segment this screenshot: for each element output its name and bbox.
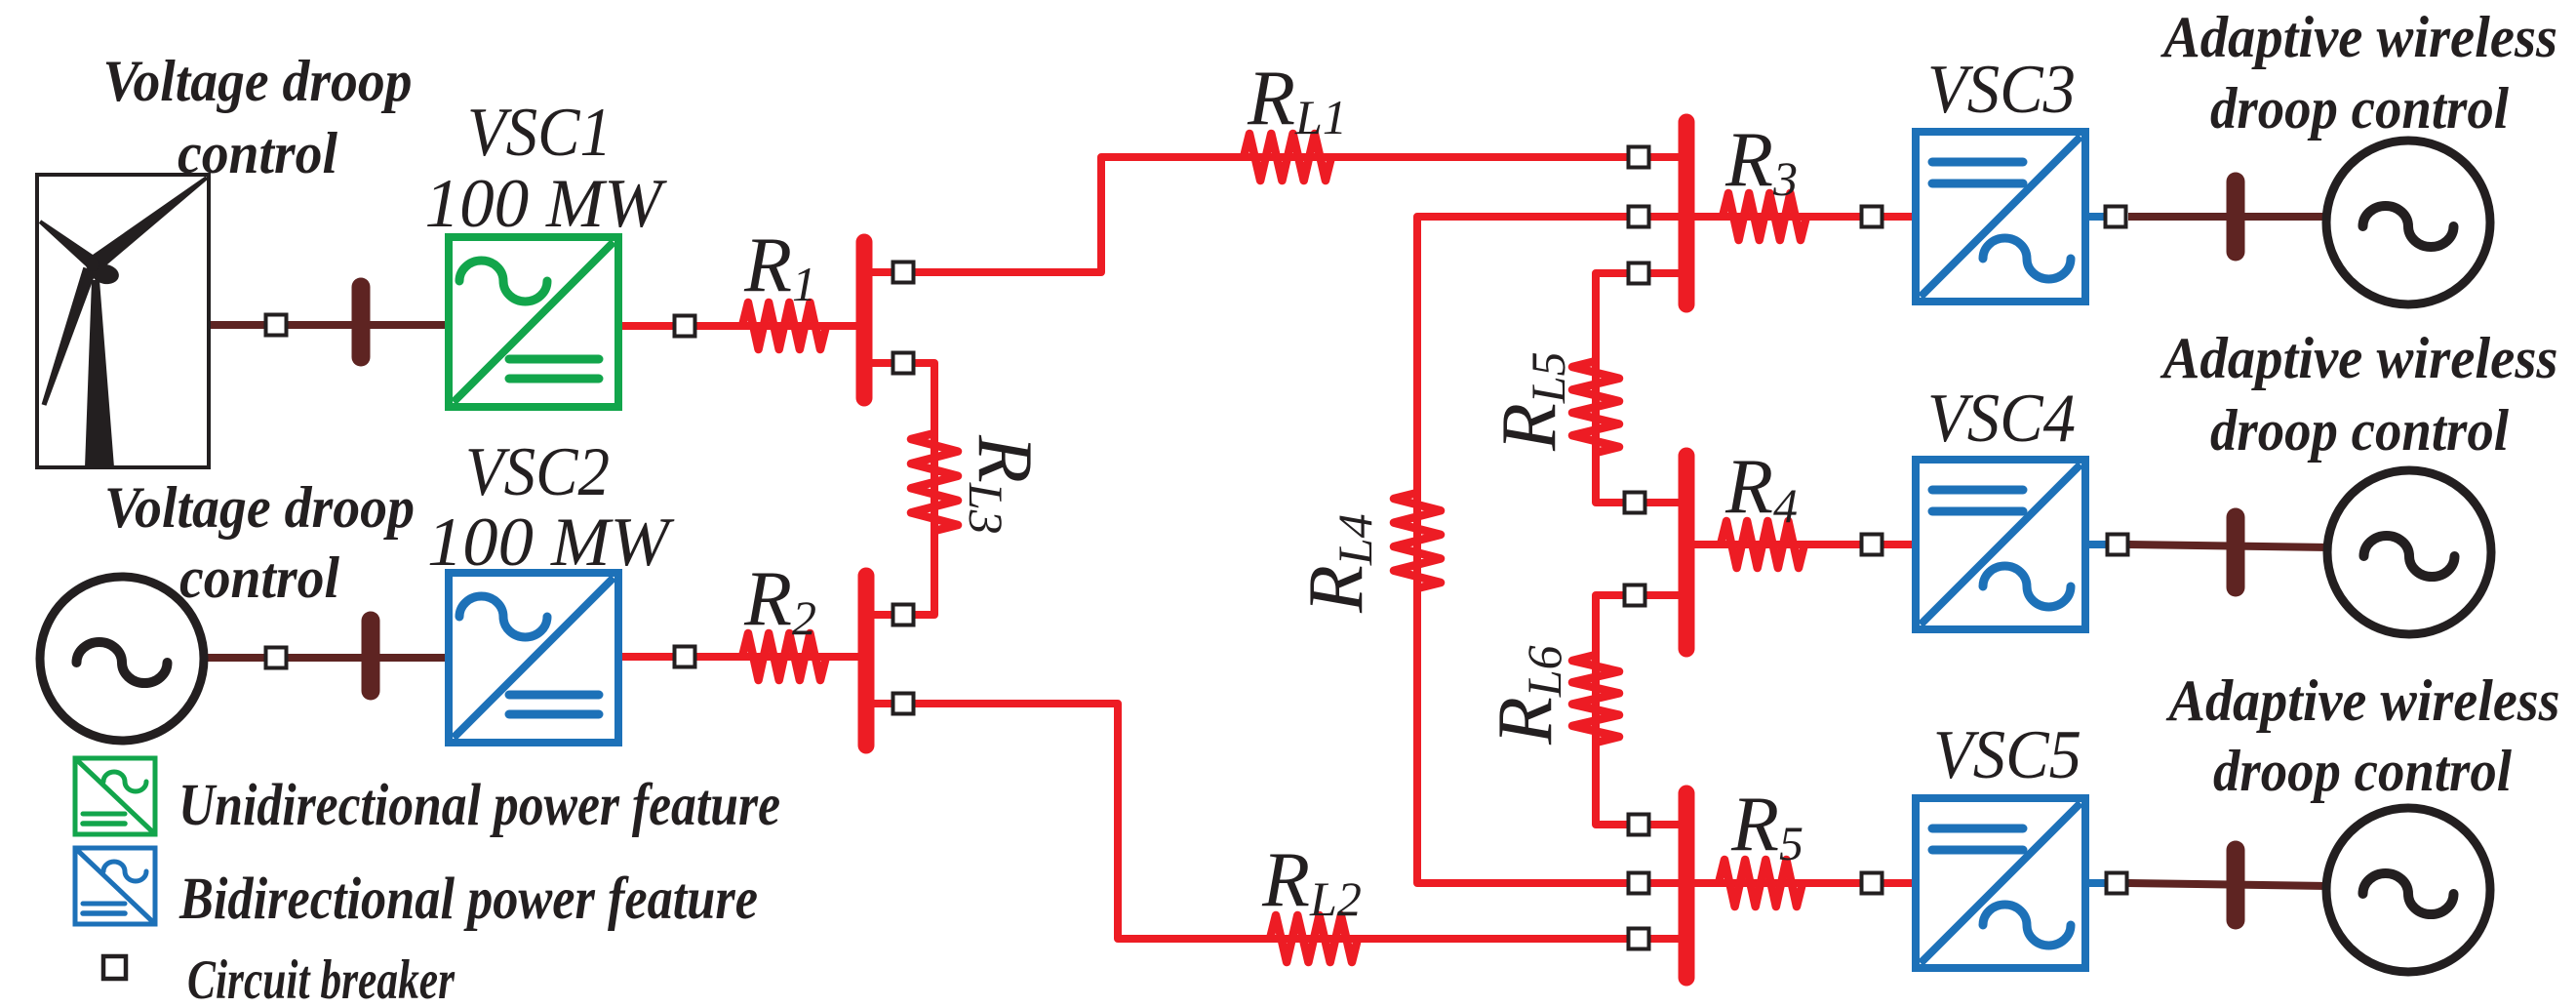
svg-text:VSC3: VSC3 <box>1927 52 2076 128</box>
circuit breaker bus B5 line RL2 <box>1629 929 1649 949</box>
svg-text:VSC5: VSC5 <box>1933 717 2081 793</box>
AC bus bar AC source 2 side <box>362 621 380 691</box>
wire VSC5 to AC source 5 <box>2128 883 2328 886</box>
svg-text:VSC1: VSC1 <box>467 95 612 171</box>
circuit breaker bus B1 line RL1 <box>893 262 914 283</box>
svg-text:100 MW: 100 MW <box>425 166 668 242</box>
circuit breaker VSC3 input <box>1862 207 1882 227</box>
AC bus bar VSC4 AC side <box>2227 517 2245 587</box>
svg-text:R3: R3 <box>1724 117 1798 206</box>
svg-text:Adaptive wireless: Adaptive wireless <box>2165 668 2560 733</box>
legend converter icon bidirectional <box>75 848 155 924</box>
wire wind turbine to VSC1 <box>209 321 449 329</box>
svg-text:Adaptive wireless: Adaptive wireless <box>2160 5 2557 69</box>
wire VSC4 AC stub <box>2085 541 2107 548</box>
svg-text:droop control: droop control <box>2210 398 2509 463</box>
wire bus B3 to bus B5 via RL4 <box>1417 217 1683 883</box>
svg-text:Voltage droop: Voltage droop <box>103 49 413 113</box>
resistor R3 <box>1723 193 1806 240</box>
circuit breaker bus B3 line RL4 <box>1629 207 1649 227</box>
resistor RL2 <box>1270 915 1358 962</box>
AC bus bar VSC3 AC side <box>2227 181 2245 252</box>
wire bus B3 to bus B4 via RL5 <box>1596 273 1683 503</box>
wire bus B4 to VSC4 via R4 <box>1694 541 1916 548</box>
converter VSC1 <box>449 237 618 407</box>
resistor RL4 <box>1394 493 1441 588</box>
circuit breaker VSC1 output <box>675 316 695 337</box>
AC source load 4 <box>2327 470 2491 634</box>
circuit breaker bus B3 line RL5 <box>1629 263 1649 284</box>
circuit breaker bus B1 line RL3 <box>893 353 914 374</box>
svg-text:R5: R5 <box>1730 782 1803 870</box>
wire VSC5 AC stub <box>2085 879 2107 887</box>
svg-text:RL3: RL3 <box>959 434 1048 535</box>
resistor R5 <box>1719 860 1803 907</box>
resistor RL3 <box>911 433 958 531</box>
circuit breaker AC source 2 <box>266 648 287 668</box>
circuit breaker wind turbine <box>266 315 287 336</box>
circuit breaker VSC4 AC side <box>2108 535 2128 555</box>
svg-text:VSC2: VSC2 <box>465 434 610 510</box>
wire bus B3 to VSC3 via R3 <box>1694 213 1916 221</box>
wire bus B4 to bus B5 via RL6 <box>1596 595 1683 825</box>
svg-text:RL5: RL5 <box>1486 351 1575 452</box>
wind turbine generator <box>37 175 209 467</box>
converter VSC3 <box>1916 132 2085 302</box>
resistor RL5 <box>1572 361 1619 453</box>
svg-text:control: control <box>179 545 339 610</box>
DC bus B3 <box>1679 122 1695 304</box>
wire VSC1 to bus B1 via R1 <box>618 322 856 330</box>
circuit breaker VSC2 output <box>675 647 695 667</box>
wire bus B1 to bus B3 via RL1 <box>868 157 1683 272</box>
circuit breaker VSC3 AC side <box>2106 207 2126 227</box>
wire VSC3 to AC source 3 <box>2128 213 2328 221</box>
svg-text:R2: R2 <box>743 556 816 645</box>
wire VSC2 to bus B2 via R2 <box>618 653 858 661</box>
AC source load 5 <box>2326 808 2490 972</box>
AC bus bar wind turbine side <box>352 287 371 357</box>
circuit breaker VSC5 AC side <box>2107 873 2127 894</box>
svg-text:control: control <box>178 121 337 185</box>
DC bus B2 <box>858 576 875 746</box>
svg-text:100 MW: 100 MW <box>427 504 675 581</box>
legend circuit breaker symbol <box>103 956 126 979</box>
svg-text:Unidirectional power feature: Unidirectional power feature <box>178 773 780 838</box>
circuit breaker VSC4 input <box>1862 535 1882 555</box>
svg-text:R4: R4 <box>1724 444 1798 533</box>
svg-text:droop control: droop control <box>2210 76 2509 141</box>
resistor RL6 <box>1572 655 1619 743</box>
svg-text:RL6: RL6 <box>1483 645 1571 746</box>
circuit breaker bus B5 line RL6 <box>1629 815 1649 835</box>
legend converter icon unidirectional <box>75 758 155 834</box>
DC bus B1 <box>856 242 873 398</box>
svg-text:RL2: RL2 <box>1261 837 1362 926</box>
AC source G2 (left) <box>40 577 204 741</box>
wire bus B2 to bus B5 via RL2 <box>868 704 1683 939</box>
svg-text:RL1: RL1 <box>1247 56 1347 144</box>
converter VSC2 <box>449 573 618 743</box>
wire AC source 2 to VSC2 <box>201 654 449 662</box>
circuit breaker bus B2 line RL3 <box>893 605 914 625</box>
svg-text:VSC4: VSC4 <box>1927 381 2076 457</box>
DC bus B4 <box>1679 456 1695 649</box>
converter VSC4 <box>1916 460 2085 629</box>
AC bus bar VSC5 AC side <box>2227 850 2245 920</box>
circuit breaker bus B2 line RL2 <box>893 694 914 714</box>
DC bus B5 <box>1679 793 1695 978</box>
AC source load 3 <box>2326 141 2490 304</box>
resistor RL1 <box>1244 134 1331 181</box>
wire bus B1 to bus B2 via RL3 <box>862 363 934 615</box>
circuit breaker bus B3 line RL1 <box>1629 147 1649 168</box>
resistor R1 <box>742 302 826 349</box>
svg-text:R1: R1 <box>743 222 816 311</box>
circuit breaker bus B4 line RL6 <box>1625 585 1645 606</box>
svg-text:Voltage droop: Voltage droop <box>104 475 415 540</box>
converter VSC5 <box>1916 798 2085 968</box>
svg-text:droop control: droop control <box>2213 739 2512 803</box>
circuit breaker bus B4 line RL5 <box>1625 493 1645 513</box>
resistor R4 <box>1721 521 1804 568</box>
wire VSC3 AC stub <box>2085 213 2107 221</box>
wire bus B5 to VSC5 via R5 <box>1694 879 1916 887</box>
svg-text:RL4: RL4 <box>1293 513 1382 614</box>
circuit breaker bus B5 line RL4 <box>1629 873 1649 894</box>
svg-text:Bidirectional power feature: Bidirectional power feature <box>178 867 758 932</box>
svg-text:Circuit breaker: Circuit breaker <box>187 949 456 1008</box>
resistor R2 <box>742 633 826 680</box>
svg-text:Adaptive wireless: Adaptive wireless <box>2160 326 2558 390</box>
circuit breaker VSC5 input <box>1862 873 1882 894</box>
wire VSC4 to AC source 4 <box>2129 544 2329 547</box>
